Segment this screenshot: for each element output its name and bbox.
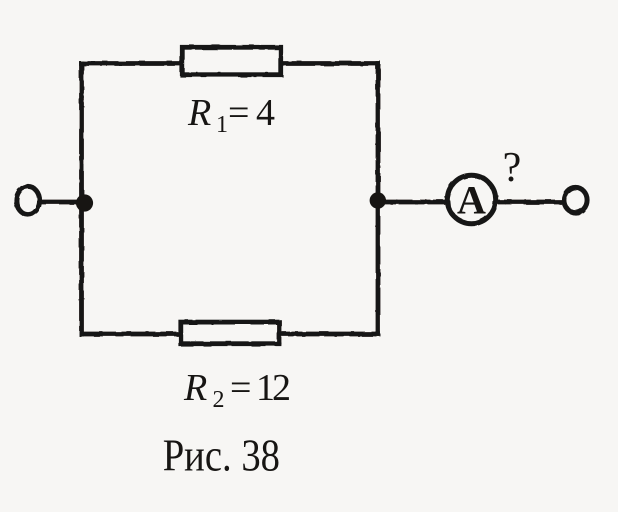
svg-text:=: = — [230, 367, 251, 409]
node: right junction — [370, 192, 386, 208]
svg-text:Рис. 38: Рис. 38 — [163, 430, 280, 481]
resistor R1 — [182, 47, 280, 74]
wire: node to ammeter — [378, 200, 446, 205]
svg-text:R: R — [183, 367, 207, 409]
value label R1 = 4 — [187, 92, 275, 138]
wire: ammeter to right terminal — [498, 200, 562, 205]
svg-text:R: R — [187, 92, 211, 134]
svg-text:?: ? — [503, 145, 522, 191]
ammeter U1 circle — [447, 175, 495, 223]
svg-text:2: 2 — [213, 387, 225, 413]
node: left junction — [76, 194, 93, 211]
terminal: left input — [16, 186, 39, 214]
wire: bottom right segment — [280, 332, 378, 337]
wire: left terminal to node — [42, 200, 84, 205]
svg-text:12: 12 — [256, 367, 289, 409]
wire: right vertical branch — [376, 64, 381, 335]
value label R2 = 12 — [183, 367, 289, 413]
svg-text:=: = — [228, 92, 249, 134]
svg-text:4: 4 — [256, 92, 275, 134]
svg-text:1: 1 — [216, 112, 228, 138]
wire: bottom left segment — [82, 332, 181, 337]
caption Рис. 38 — [163, 430, 280, 481]
resistor R2 — [181, 322, 279, 344]
terminal: right output — [564, 187, 587, 212]
svg-text:A: A — [457, 178, 486, 223]
wire: left vertical branch — [79, 64, 84, 335]
wire: top right segment — [282, 61, 378, 66]
wire: top left segment — [82, 61, 182, 66]
